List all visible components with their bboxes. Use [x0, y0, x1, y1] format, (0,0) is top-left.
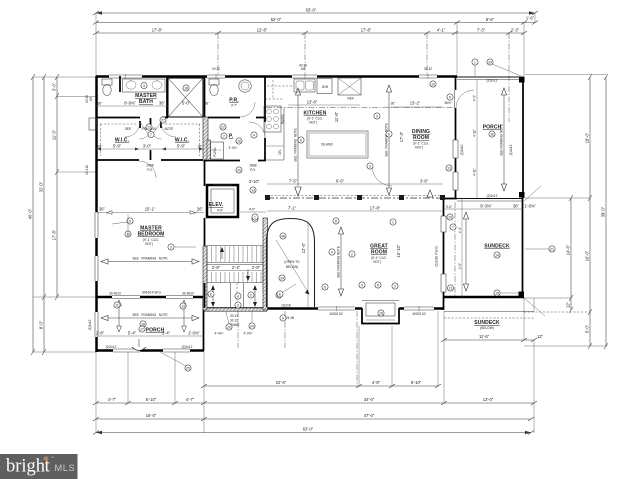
sundeck dim line: [445, 204, 536, 210]
svg-text:8: 8: [377, 283, 379, 287]
bottom dimension line 4'-7" 6'-10" 4'-7" / 34'-0" / 13'-0": [93, 397, 537, 405]
dining dim line 13'-2": [390, 101, 443, 108]
kitchen sink: [294, 79, 315, 92]
svg-text:27: 27: [161, 118, 165, 122]
svg-text:52'-0": 52'-0": [271, 17, 282, 22]
stair treads: [207, 246, 263, 284]
left exterior wall: [95, 76, 98, 352]
porch rotated dims: [473, 80, 478, 198]
svg-text:17'-8": 17'-8": [361, 28, 372, 33]
svg-text:W.I.C.: W.I.C.: [175, 138, 190, 144]
svg-text:SEE FRAMING NOTE: SEE FRAMING NOTE: [337, 246, 341, 278]
porch right wall: [522, 77, 524, 198]
svg-text:5'-9": 5'-9": [177, 144, 186, 149]
svg-text:6'-10": 6'-10": [411, 380, 422, 385]
left dimension line 3'-0" / 11'-3" / 17'-8": [52, 74, 60, 300]
keynote 3 landing: [235, 302, 241, 308]
svg-text:40'-0": 40'-0": [28, 208, 33, 219]
right extension lines: [525, 74, 606, 76]
svg-text:2468: 2468: [146, 164, 153, 168]
svg-text:26: 26: [237, 139, 241, 143]
chimney chase bump (left wall): [89, 118, 97, 130]
svg-text:36⅜": 36⅜": [444, 101, 451, 105]
svg-text:4'-4": 4'-4": [458, 227, 462, 233]
left dimension line 32'-0" / 8'-0": [39, 74, 47, 355]
centerline porch: [508, 33, 510, 122]
svg-text:6'-10": 6'-10": [146, 397, 157, 402]
svg-text:BEDROOM: BEDROOM: [138, 232, 165, 238]
svg-text:2: 2: [223, 134, 225, 138]
svg-text:7'-3": 7'-3": [477, 28, 486, 33]
svg-text:63'-0": 63'-0": [303, 427, 314, 432]
landing walls below stairs: [205, 283, 244, 308]
WIC dim line: [96, 144, 204, 151]
svg-text:SEE FRAMING NOTE: SEE FRAMING NOTE: [294, 128, 298, 161]
svg-text:(2)2x12: (2)2x12: [487, 79, 498, 83]
shower enclosure: [168, 78, 203, 117]
svg-text:15'-10": 15'-10": [396, 244, 401, 257]
svg-text:20: 20: [227, 325, 231, 329]
svg-text:12'-8": 12'-8": [257, 28, 268, 33]
svg-text:40202 62: 40202 62: [412, 312, 426, 316]
svg-text:4'-11": 4'-11": [473, 129, 477, 137]
kitchen counters: [265, 99, 284, 160]
keynote 23 hall: [146, 124, 152, 130]
keynote 13 elev: [250, 187, 256, 193]
svg-text:PORCH: PORCH: [146, 328, 165, 334]
door P to kitchen: [249, 122, 265, 138]
keynote 12 dining: [430, 81, 436, 87]
keynote 1 great room top right: [390, 219, 396, 225]
centerline 30/32: [426, 33, 428, 76]
svg-text:NOTE: NOTE: [165, 127, 174, 131]
svg-text:36": 36": [99, 207, 106, 212]
svg-text:F.G.: F.G.: [147, 168, 153, 172]
svg-text:4'-7": 4'-7": [186, 397, 195, 402]
svg-text:FURN.: FURN.: [213, 147, 217, 157]
svg-text:29: 29: [237, 168, 241, 172]
svg-text:3: 3: [376, 114, 378, 118]
window great room right wall 2: [441, 274, 446, 292]
keynote 2 P: [221, 133, 227, 139]
svg-text:1'-6": 1'-6": [526, 16, 535, 21]
sundeck right wall: [522, 198, 524, 298]
keynote 3 bath: [141, 82, 147, 88]
svg-text:✱: ✱: [43, 455, 49, 463]
svg-text:7: 7: [150, 133, 152, 137]
svg-text:1: 1: [392, 220, 394, 224]
svg-text:10: 10: [448, 215, 452, 219]
svg-text:HGT): HGT): [415, 146, 423, 150]
svg-text:13: 13: [181, 304, 185, 308]
svg-text:18'-0": 18'-0": [585, 132, 590, 143]
svg-text:3'-0": 3'-0": [446, 205, 452, 209]
great room dim line: [267, 206, 443, 212]
keynote 3 great room low: [359, 282, 365, 288]
svg-text:HGT): HGT): [373, 260, 381, 264]
svg-text:7'-5": 7'-5": [289, 179, 298, 184]
svg-text:8: 8: [335, 219, 337, 223]
porch screen panel left: [113, 349, 140, 352]
centerline sundeck left: [454, 202, 456, 296]
great room bottom exterior wall: [204, 307, 444, 310]
sundeck bottom wall: [443, 296, 524, 299]
svg-text:11'-6": 11'-6": [479, 334, 490, 339]
svg-text:24 4B: 24 4B: [286, 316, 294, 320]
keynote 10 sundeck left: [447, 214, 453, 220]
svg-text:RA/OV.: RA/OV.: [281, 113, 285, 124]
stair direction arrows: [220, 247, 250, 281]
svg-text:30 32: 30 32: [424, 67, 432, 71]
svg-text:4: 4: [253, 133, 255, 137]
svg-text:3: 3: [361, 283, 363, 287]
svg-text:9: 9: [449, 95, 451, 99]
sundeck below outline: [444, 298, 534, 318]
svg-text:(BELOW): (BELOW): [480, 326, 494, 330]
porch bottom-left bottom wall: [96, 349, 204, 352]
wall stub between toilet and vanity: [119, 76, 121, 92]
keynote 9 dining: [447, 94, 453, 100]
svg-text:HGT): HGT): [309, 121, 317, 125]
svg-text:13'-8": 13'-8": [307, 100, 318, 105]
svg-text:SEE FRAMING NOTE: SEE FRAMING NOTE: [132, 257, 167, 261]
svg-text:11'-3": 11'-3": [52, 129, 57, 140]
beam down arrow right: [427, 190, 433, 197]
svg-text:23: 23: [147, 125, 151, 129]
svg-text:2'-8": 2'-8": [212, 265, 221, 270]
dash-dot projection lines below plan: [237, 311, 239, 348]
svg-text:21: 21: [550, 247, 554, 251]
porch top-right: top beam: [457, 77, 524, 80]
keynote 1 top: [472, 59, 478, 76]
framing arrow kitchen left (vertical): [294, 88, 302, 196]
svg-text:4A: 4A: [281, 234, 286, 238]
svg-text:36": 36": [197, 207, 204, 212]
bath dim line: [96, 101, 191, 107]
svg-text:24 410: 24 410: [85, 165, 89, 175]
keynote C landing: [248, 292, 254, 298]
keynote 6 kitchen left arrow: [298, 137, 304, 143]
bedroom dim line 15'-1": [96, 207, 204, 215]
great room upper dim row: [267, 179, 443, 185]
keynote 18 bath: [183, 85, 189, 91]
svg-text:3: 3: [129, 219, 131, 223]
wall PR bottom / P top: [208, 117, 266, 119]
svg-text:ROOM: ROOM: [413, 135, 429, 141]
svg-text:8'-0": 8'-0": [39, 320, 44, 329]
wall shower left: [166, 76, 168, 117]
svg-text:DN.: DN.: [278, 149, 282, 155]
svg-text:3: 3: [369, 164, 371, 168]
refrigerator REF: [338, 78, 361, 95]
corridor wall right of bedroom: [204, 76, 206, 117]
svg-text:D/W: D/W: [322, 85, 328, 89]
svg-text:2'-8": 2'-8": [252, 265, 261, 270]
keynote 13 bedroom: [125, 214, 131, 237]
svg-text:(2)2x12: (2)2x12: [106, 345, 117, 349]
svg-text:3'-0": 3'-0": [143, 144, 152, 149]
keynote 13 porch: [180, 303, 186, 309]
svg-text:3'-0": 3'-0": [52, 82, 57, 91]
window great room bottom wall 2: [404, 306, 434, 311]
svg-text:AH: AH: [89, 96, 93, 101]
window dining right wall: [453, 140, 458, 158]
svg-text:5'-0": 5'-0": [585, 324, 590, 333]
svg-text:MLS: MLS: [55, 463, 76, 473]
svg-text:3'-7": 3'-7": [231, 104, 237, 108]
sundeck corner post: [519, 292, 525, 298]
keynote 3 bedroom: [112, 218, 133, 224]
keynote 1 great room left: [252, 216, 258, 222]
wall WIC / master bedroom divider: [96, 159, 204, 161]
keynote 7 sundeck left: [450, 224, 456, 230]
svg-text:22'-6": 22'-6": [276, 380, 287, 385]
svg-text:6'-6": 6'-6": [336, 179, 345, 184]
bottom dimension line 11'-6" / 13" (sundeck below): [441, 334, 544, 342]
svg-text:12": 12": [566, 301, 571, 308]
keynote 22 P: [220, 124, 226, 130]
keynote 25 porch leader: [160, 352, 191, 371]
keynote 17 porch label: [139, 326, 145, 332]
svg-text:30 41: 30 41: [230, 314, 238, 318]
svg-text:22: 22: [221, 125, 225, 129]
svg-text:2'-0⅜": 2'-0⅜": [188, 331, 200, 336]
svg-text:4'-0": 4'-0": [249, 208, 255, 212]
window master bedroom bottom wall 2: [166, 296, 193, 299]
svg-text:30-4610: 30-4610: [182, 292, 194, 296]
keynote 26 P: [236, 138, 242, 144]
svg-text:18: 18: [184, 86, 188, 90]
svg-text:4'-3⅜": 4'-3⅜": [243, 332, 252, 336]
svg-text:14: 14: [495, 253, 499, 257]
svg-text:9: 9: [282, 316, 284, 320]
keynote 3 kitchen: [374, 113, 380, 119]
door dining to porch: [455, 90, 475, 108]
svg-text:40302 62: 40302 62: [329, 312, 343, 316]
svg-text:ROOM: ROOM: [371, 250, 387, 256]
keynote 19 fireplace: [378, 310, 384, 316]
svg-text:2'-8": 2'-8": [96, 331, 105, 336]
porch joist arrow right (vertical): [182, 300, 187, 332]
svg-text:7: 7: [452, 225, 454, 229]
svg-text:4'-5": 4'-5": [473, 95, 477, 101]
svg-text:63'-0": 63'-0": [306, 8, 317, 13]
svg-text:2: 2: [394, 284, 396, 288]
svg-text:1: 1: [254, 215, 256, 219]
svg-text:25: 25: [186, 366, 190, 370]
svg-text:15: 15: [495, 291, 499, 295]
framing arrow great room (vertical): [337, 227, 344, 296]
svg-text:2868: 2868: [249, 164, 256, 168]
svg-text:3'-8": 3'-8": [420, 179, 429, 184]
cased opening arc kitchen to great room: [372, 166, 392, 186]
keynote E great room leader: [277, 284, 296, 297]
fireplace bay: [362, 301, 399, 324]
svg-text:2'-4": 2'-4": [232, 265, 241, 270]
keynote 21 right with leader: [525, 246, 555, 252]
svg-text:36": 36": [98, 145, 103, 149]
great room beam line with posts: [265, 195, 445, 200]
range RA/OV: [264, 106, 281, 132]
furnace closet: [207, 140, 224, 160]
right dimension line 14'-6" / 12": [566, 195, 574, 313]
svg-text:12: 12: [431, 82, 435, 86]
keynote 3 bedroom right: [168, 244, 196, 250]
svg-text:(2)2x8: (2)2x8: [281, 304, 290, 308]
svg-text:8'-9⅜": 8'-9⅜": [124, 101, 136, 106]
porch/sundeck divider beam: [457, 199, 523, 202]
keynote 2 great room low right: [392, 283, 398, 289]
svg-text:3'-10": 3'-10": [249, 179, 260, 184]
svg-text:(2)2x12: (2)2x12: [182, 345, 193, 349]
keynote 20 arch low: [276, 292, 282, 298]
kitchen upper cabinets dashed: [267, 80, 292, 99]
svg-text:6: 6: [388, 132, 390, 136]
svg-text:16'-0": 16'-0": [585, 250, 590, 261]
svg-text:47'-0": 47'-0": [364, 413, 375, 418]
svg-text:13: 13: [447, 166, 451, 170]
svg-text:3: 3: [143, 84, 145, 88]
framing arrow sundeck (vertical): [463, 212, 468, 291]
sundeck corner leader top: [524, 186, 541, 201]
keynote E landing left: [208, 291, 214, 297]
svg-text:13: 13: [251, 188, 255, 192]
keynote 2 great room: [349, 251, 355, 257]
bottom extension lines: [95, 352, 97, 433]
stair side wall (hatched): [263, 218, 268, 310]
keynote 4A arch: [280, 233, 286, 239]
top extension lines: [95, 13, 97, 76]
svg-text:W.I.C.: W.I.C.: [115, 138, 130, 144]
svg-text:BATH: BATH: [139, 99, 153, 105]
svg-text:5'-0": 5'-0": [182, 101, 191, 106]
landing bottom dims: [214, 332, 252, 336]
dimension line 63'-0" (top row): [93, 8, 538, 16]
svg-text:3'-0⅜": 3'-0⅜": [228, 146, 237, 150]
kitchen island: [307, 131, 368, 158]
svg-text:17: 17: [140, 327, 144, 331]
svg-text:2'-3": 2'-3": [511, 28, 520, 33]
window powder room (top wall): [207, 74, 225, 79]
svg-text:36": 36": [391, 102, 396, 106]
bottom dimension line 16'-0" / 47'-0": [93, 413, 534, 421]
svg-text:3: 3: [170, 245, 172, 249]
centerline 20/32: [217, 33, 219, 76]
keynote 4 great room: [329, 249, 335, 255]
dishwasher D/W: [317, 79, 332, 94]
svg-text:30-4610: 30-4610: [109, 292, 121, 296]
window great room right wall: [441, 216, 446, 232]
svg-text:17'-8": 17'-8": [370, 206, 381, 211]
top exterior wall: [96, 75, 457, 78]
svg-text:13": 13": [537, 334, 544, 339]
window porch (left wall): [95, 312, 98, 337]
svg-text:(OPEN TO: (OPEN TO: [284, 260, 300, 264]
keynote 24 below landing: [249, 311, 255, 329]
keynote 9 below wall: [280, 315, 286, 321]
svg-text:32'-0": 32'-0": [39, 181, 44, 192]
great room open-to-below arch: [267, 219, 315, 308]
svg-text:PORCH: PORCH: [483, 125, 502, 131]
svg-text:60610-F.W.G.: 60610-F.W.G.: [142, 291, 162, 295]
wall master bath / WIC divider: [96, 117, 168, 119]
svg-text:17'-8": 17'-8": [52, 229, 57, 240]
wall jog at porch/sundeck line: [443, 198, 457, 200]
WIC divider walls: [140, 118, 161, 160]
svg-text:14'-6": 14'-6": [566, 244, 571, 255]
porch joist arrow left (vertical): [117, 300, 122, 332]
svg-text:REF.: REF.: [348, 97, 355, 101]
svg-text:16: 16: [490, 132, 494, 136]
svg-text:13'-2": 13'-2": [410, 101, 421, 106]
svg-text:9'-3⅜": 9'-3⅜": [480, 204, 492, 209]
keynote 29 P: [236, 167, 242, 173]
bright MLS logo: [0, 454, 78, 479]
keynote 27 wic: [160, 117, 166, 123]
svg-text:17'-8": 17'-8": [152, 28, 163, 33]
dimension line 17'-8" 12'-8" 17'-8" 4'-1" 7'-3" 2'-3" (third row): [93, 28, 527, 36]
svg-text:P.: P.: [229, 134, 234, 140]
bottom dimension line 63'-0": [93, 427, 534, 435]
kitchen/dining ceiling break dash-dot: [266, 107, 455, 109]
svg-text:11: 11: [115, 303, 119, 307]
svg-text:ISLAND: ISLAND: [321, 143, 333, 147]
WIC double doors swing: [125, 122, 176, 139]
corridor framing note: [125, 127, 174, 131]
svg-text:12'-6": 12'-6": [301, 242, 306, 253]
keynote 20 below landing: [226, 312, 232, 330]
svg-text:13: 13: [449, 286, 453, 290]
svg-text:1: 1: [474, 60, 476, 64]
svg-text:(2)2x12: (2)2x12: [88, 319, 92, 330]
keynote 18 porch: [140, 321, 146, 327]
svg-text:39'-0": 39'-0": [601, 206, 606, 217]
svg-text:20: 20: [488, 60, 492, 64]
keynote 13 dining low: [446, 165, 452, 171]
keynote 6 great room low: [322, 284, 328, 290]
svg-text:36": 36": [513, 204, 520, 209]
toilet powder room: [209, 79, 219, 96]
window dining right wall 2: [453, 172, 458, 190]
svg-text:11'-8": 11'-8": [334, 111, 339, 122]
keynote 6 kitchen arrow: [386, 131, 392, 137]
centerline 40/30: [304, 33, 306, 76]
svg-text:5'-4": 5'-4": [128, 331, 137, 336]
hatched wall between WIC and P: [203, 117, 208, 161]
window master bedroom bottom wall: [112, 296, 140, 299]
porch center post leader: [132, 339, 146, 351]
svg-text:34'-0": 34'-0": [364, 397, 375, 402]
svg-text:16'-0": 16'-0": [146, 413, 157, 418]
svg-text:36": 36": [159, 101, 166, 106]
porch corner post bottom: [519, 192, 525, 198]
svg-text:4'-7": 4'-7": [108, 397, 117, 402]
window great room bottom wall: [318, 306, 355, 311]
sundeck corner leader bottom: [524, 298, 545, 316]
svg-text:15'-1": 15'-1": [145, 207, 156, 212]
bottom dimension line 22'-6" / 4'-8" / 6'-10": [201, 380, 441, 388]
right dimension line 39'-0": [601, 74, 609, 349]
svg-text:17'-3": 17'-3": [399, 131, 404, 142]
svg-text:36": 36": [98, 102, 103, 106]
keynote 8 great room low: [375, 282, 381, 288]
keynote 11 porch: [114, 302, 120, 308]
toilet master bath: [102, 79, 112, 96]
keynote 13 great room wall low: [447, 285, 453, 291]
svg-text:30 10: 30 10: [230, 319, 238, 323]
svg-text:SUNDECK: SUNDECK: [484, 244, 510, 250]
left dimension line 40'-0": [28, 74, 36, 355]
